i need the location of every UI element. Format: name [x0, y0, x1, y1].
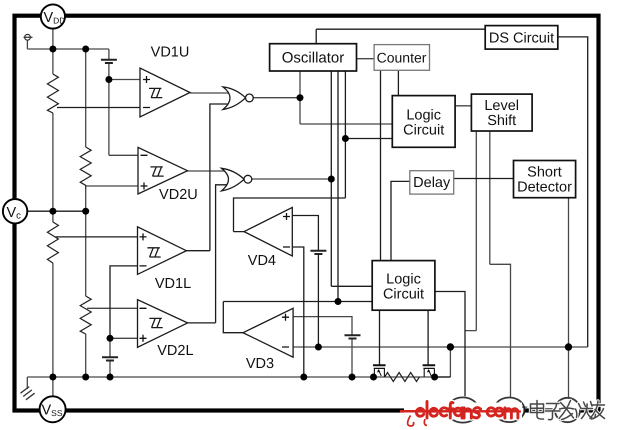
svg-text:VD4: VD4	[248, 253, 276, 269]
svg-text:VD2L: VD2L	[157, 343, 193, 359]
svg-text:Shift: Shift	[487, 113, 516, 129]
svg-text:DS Circuit: DS Circuit	[489, 31, 554, 47]
svg-text:Delay: Delay	[413, 175, 451, 191]
svg-text:Counter: Counter	[377, 50, 427, 66]
svg-text:VD3: VD3	[246, 356, 274, 372]
svg-text:Circuit: Circuit	[403, 123, 444, 139]
svg-text:Detector: Detector	[517, 180, 572, 196]
svg-text:Logic: Logic	[386, 272, 421, 288]
svg-text:Circuit: Circuit	[383, 287, 424, 303]
svg-text:VD2U: VD2U	[159, 187, 198, 203]
svg-text:Short: Short	[527, 165, 562, 181]
svg-text:Logic: Logic	[406, 108, 441, 124]
svg-text:Oscillator: Oscillator	[282, 50, 345, 67]
svg-text:VD1L: VD1L	[155, 276, 191, 292]
svg-text:VD1U: VD1U	[151, 45, 190, 61]
svg-text:Level: Level	[484, 98, 519, 114]
